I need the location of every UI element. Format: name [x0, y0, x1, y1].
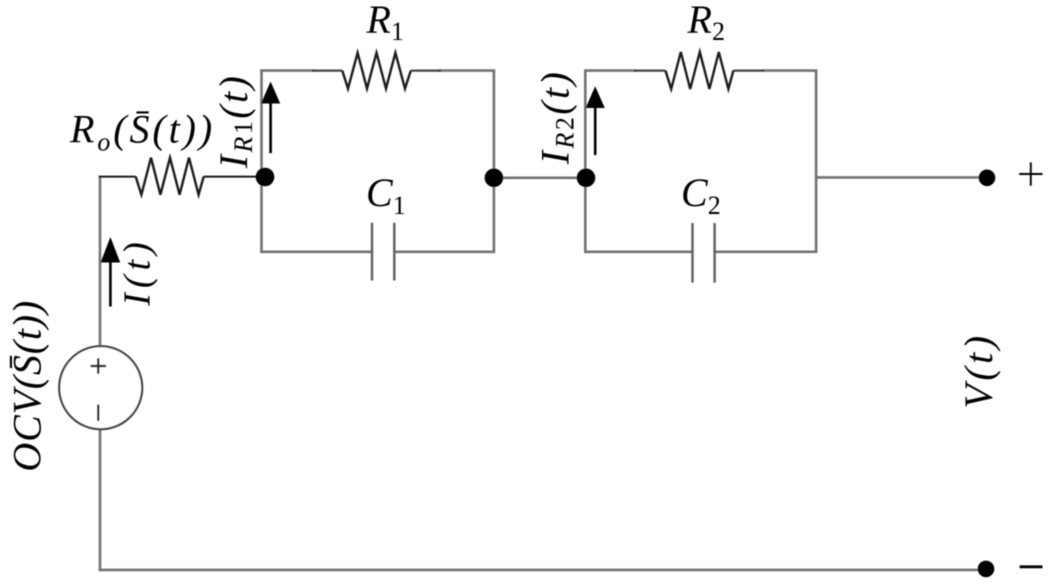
capacitor C1 plates: [372, 223, 394, 281]
arrow I_R1(t): [261, 82, 280, 154]
terminal dot plus: [979, 170, 996, 187]
svg-text:IR2(t): IR2(t): [533, 70, 580, 165]
resistor Ro leads: [99, 176, 258, 178]
RC1 box right wire: [493, 71, 496, 253]
RC1 box bottom wire segments: [260, 251, 495, 254]
wire: left vertical from top rail to source top: [99, 176, 102, 346]
plus terminal sign: [1019, 162, 1042, 186]
node dot C (RC2 left): [577, 169, 596, 188]
resistor R1 zigzag: [342, 53, 411, 89]
wire: rail between RC1 and RC2: [494, 177, 586, 180]
arrow I_R2(t): [586, 86, 605, 155]
RC2 box bottom wire segments: [584, 251, 817, 254]
svg-text:C2: C2: [681, 170, 721, 220]
wire: bottom rail: [99, 569, 978, 572]
svg-text:V(t): V(t): [956, 332, 1001, 408]
svg-text:I(t): I(t): [117, 237, 159, 307]
svg-text:Ro(S̄(t)): Ro(S̄(t)): [69, 107, 215, 157]
voltage source minus sign (rotated, vertical bar): [97, 405, 99, 422]
svg-text:R1: R1: [366, 0, 404, 46]
node dot A (after Ro): [256, 168, 275, 187]
resistor Ro zigzag: [136, 158, 204, 195]
RC1 box left wire: [260, 71, 263, 253]
svg-text:OCV(S̄(t)): OCV(S̄(t)): [5, 300, 50, 472]
wire: output rail to plus terminal: [816, 176, 980, 179]
voltage source OCV circle: [59, 346, 142, 429]
RC2 box top wire segments: [584, 69, 817, 72]
label I_R2(t) rotated: [533, 70, 580, 165]
label I(t) rotated: [117, 237, 159, 307]
label I_R1(t) rotated: [211, 74, 258, 169]
resistor R1 leads: [312, 69, 441, 71]
RC2 box left wire: [584, 71, 587, 253]
node dot B (RC1 right): [485, 169, 504, 188]
svg-text:C1: C1: [366, 170, 406, 220]
label OCV(S(t)) rotated: [5, 300, 50, 472]
svg-text:R2: R2: [687, 0, 725, 46]
RC1 box top wire segments: [260, 69, 495, 72]
resistor R2 leads: [634, 69, 764, 71]
RC2 box right wire: [815, 71, 818, 253]
terminal dot minus: [978, 561, 995, 578]
arrow I(t): [101, 237, 121, 307]
capacitor C2 plates: [693, 223, 715, 283]
minus terminal sign: [1020, 565, 1043, 568]
wire: left vertical from source bottom to bottom rail: [99, 430, 102, 570]
resistor R2 zigzag: [666, 52, 734, 89]
label V(t) rotated: [956, 332, 1001, 408]
svg-text:IR1(t): IR1(t): [211, 74, 258, 169]
voltage source plus sign: [91, 358, 107, 373]
